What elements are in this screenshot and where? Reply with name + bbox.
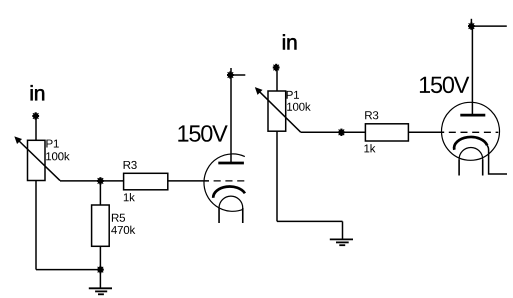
supply junction dot 150V (right) <box>468 22 475 29</box>
label R5 <box>112 214 125 222</box>
terminal dot left in <box>32 112 39 119</box>
label 1k (left) <box>124 193 135 201</box>
triode V2 (right) <box>442 102 508 175</box>
wire right supply rail to edge <box>471 25 506 27</box>
wire R3 to grid of V2 <box>408 131 444 133</box>
wire wiper to junction A <box>60 180 100 182</box>
cathode V2 (thick arc) <box>454 137 487 150</box>
wire bottom rail <box>36 269 100 271</box>
cathode lead V2 <box>487 145 507 174</box>
wire junction C to R3 (right) <box>341 131 365 133</box>
label 100k (right) <box>287 102 311 110</box>
wire wiper to junction C (right) <box>301 131 342 133</box>
wire left supply to anode <box>230 75 232 163</box>
wire P1 bottom down <box>35 181 37 270</box>
wire junction A to R5 top <box>99 181 101 205</box>
ground (left) <box>89 288 112 294</box>
wire in-dot to P1 top <box>35 119 37 141</box>
envelope circle V1 <box>204 154 245 211</box>
wire stub above right supply dot <box>470 19 472 26</box>
wire stub above left supply dot <box>230 68 232 75</box>
wire junction A to R3 left <box>100 180 123 182</box>
grid V2 (dashed) <box>449 131 499 133</box>
label R3 (left) <box>124 161 137 169</box>
junction dot C (right wiper node) <box>338 129 345 136</box>
wire junction B to ground <box>99 270 101 289</box>
potentiometer P1 (left) <box>15 137 60 181</box>
wire down to ground (right) <box>342 221 344 239</box>
label P1 (left) <box>46 140 58 148</box>
label 150V (left supply) <box>178 125 227 142</box>
potentiometer P1 (right) <box>256 88 301 132</box>
cathode V1 (thick arc) <box>213 187 245 198</box>
heater legs V2 <box>459 159 483 175</box>
wire P1 bottom down (right) <box>276 131 278 221</box>
wire right supply to anode <box>471 26 473 115</box>
resistor R3 (left) <box>124 173 168 190</box>
wire R3 to grid of V1 <box>168 180 209 182</box>
junction dot B (left ground node) <box>97 266 104 273</box>
wire bottom rail (right) <box>277 220 343 222</box>
terminal dot right in <box>273 64 280 71</box>
resistor R3 (right) <box>365 124 408 141</box>
triode V1 (left) <box>204 154 245 223</box>
grid V1 (dashed) <box>214 180 245 182</box>
label 470k <box>111 226 135 234</box>
envelope circle V2 <box>442 102 500 160</box>
supply terminal dot 150V (left) <box>227 71 234 78</box>
junction dot A (left wiper node) <box>97 177 104 184</box>
anode plate V1 <box>218 162 244 165</box>
anode plate V2 <box>460 114 485 117</box>
heater legs V1 <box>219 208 243 223</box>
resistor R5 <box>92 205 110 246</box>
label 150V (right supply) <box>420 77 469 94</box>
wire in-dot to P1 top (right) <box>276 70 278 91</box>
ground (right) <box>330 239 353 245</box>
node in (left input terminal label) <box>31 85 44 100</box>
heater V2 (dome) <box>459 148 483 160</box>
label 100k (left) <box>46 152 69 160</box>
heater V1 (dome) <box>219 196 243 208</box>
node in (right input terminal label) <box>283 34 296 49</box>
label 1k (right) <box>364 144 375 152</box>
wire R5 bottom to junction B <box>99 246 101 269</box>
label R3 (right) <box>365 111 378 119</box>
wire stub right of left supply dot <box>230 74 245 76</box>
label P1 (right) <box>287 91 299 99</box>
